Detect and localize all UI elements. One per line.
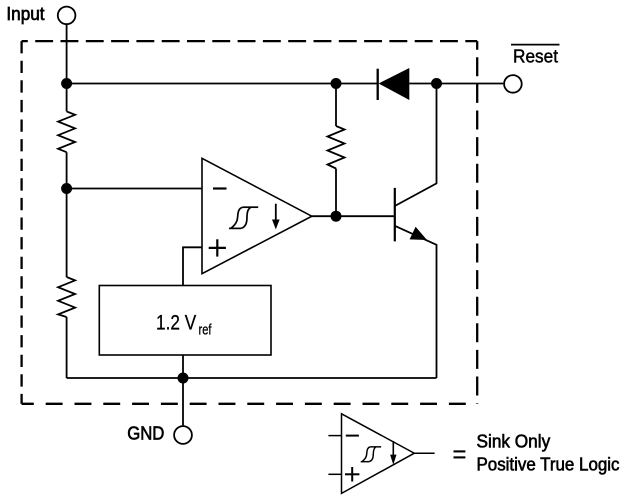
svg-text:Positive True Logic: Positive True Logic [477, 454, 620, 474]
svg-text:ref: ref [199, 322, 213, 338]
svg-text:Reset: Reset [513, 47, 558, 67]
svg-text:Input: Input [6, 4, 44, 24]
svg-text:Sink Only: Sink Only [477, 432, 551, 452]
svg-text:1.2 V: 1.2 V [156, 312, 196, 335]
svg-text:GND: GND [127, 422, 164, 443]
